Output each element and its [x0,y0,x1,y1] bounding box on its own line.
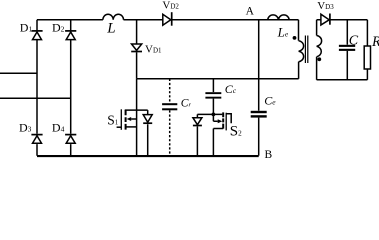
wire S2 gate lead [226,114,231,124]
svg-text:S1: S1 [107,112,119,127]
wire S2 drain stub [197,113,222,115]
svg-text:D3: D3 [19,121,32,135]
wire S1 body arrow branch [131,118,137,120]
diode VD1 [131,44,142,52]
svg-text:VD3: VD3 [317,0,334,12]
node junction dot S2 drain [212,113,216,117]
transformer secondary winding [317,20,322,80]
svg-text:A: A [246,6,255,18]
wire VD1 branch vertical [136,20,138,79]
inductor L [103,14,124,20]
svg-text:Le: Le [277,24,289,39]
wire right bridge leg [70,20,72,156]
svg-text:R: R [371,34,379,50]
transformer core [305,36,307,64]
wire dashed branch [169,79,171,156]
diode D1 [31,31,42,40]
capacitor Cr [162,103,177,110]
svg-text:VD1: VD1 [145,43,162,55]
S2 channel bar [222,112,224,128]
diode D2 [65,31,76,40]
wire left bridge leg [36,20,38,156]
wire mid rail [137,78,299,80]
svg-text:Cc: Cc [225,82,237,96]
svg-text:Cr: Cr [181,97,192,109]
diode VD3 [321,14,330,26]
wire node A branch vertical [258,20,260,111]
wire S2 source [213,129,223,156]
wire S1 gate lead [117,126,122,128]
inductor Le [268,15,290,20]
diode D3 [31,135,42,144]
svg-text:B: B [265,149,273,158]
wire S1 branch vertical [136,79,138,156]
wire AC input line 1 [0,72,37,74]
resistor R [364,20,370,80]
wire top rail [37,19,299,21]
wire secondary bottom rail [317,79,368,81]
transistor S2 MOSFET [213,112,231,155]
svg-text:D1: D1 [20,20,33,34]
svg-text:S2: S2 [230,123,242,139]
svg-text:D2: D2 [52,20,65,34]
transistor S1 MOSFET [117,109,137,130]
wire S1 source stub [126,126,136,128]
S1 channel bar [125,110,127,130]
capacitor C output [339,20,355,80]
diode D4 [65,135,76,144]
wire S1 drain stub [125,109,148,111]
svg-text:L: L [106,21,115,37]
S1 gate bar [120,109,122,130]
transformer phase dot primary [293,36,297,40]
transformer primary winding [299,20,304,79]
svg-text:Ce: Ce [264,93,276,107]
svg-text:D4: D4 [52,121,65,135]
svg-text:VD2: VD2 [162,0,179,12]
diode VD2 [163,12,172,26]
capacitor Cc [205,79,221,115]
capacitor Ce [251,111,267,156]
wire AC input line 2 [0,97,71,99]
diode S1 antiparallel [143,110,152,156]
wire secondary top rail [317,19,368,21]
wire bottom rail [37,155,259,157]
transformer phase dot secondary [317,57,321,61]
wire S2 body arrow branch [213,114,217,121]
diode S2 antiparallel [193,114,202,155]
svg-text:C: C [349,33,359,48]
S2 gate bar [225,113,227,131]
